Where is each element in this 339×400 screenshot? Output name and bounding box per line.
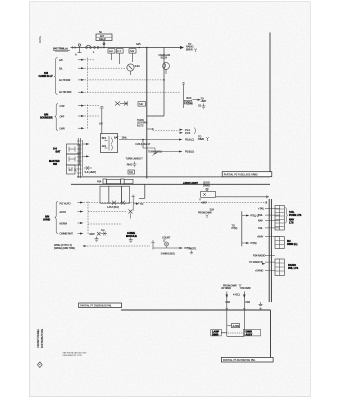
group label SOUNDER	[40, 114, 53, 120]
svg-text:BUS: BUS	[187, 97, 192, 100]
svg-text:PNL LTS: PNL LTS	[288, 267, 299, 270]
svg-text:TURN LANDG T: TURN LANDG T	[126, 158, 144, 161]
net label OFF	[60, 115, 65, 118]
tick P2 pin PLT AUTO	[265, 201, 268, 204]
svg-text:S-5A: S-5A	[135, 65, 141, 68]
svg-text:CTR: CTR	[60, 105, 65, 108]
partial box P2 right boundary wire	[269, 33, 271, 173]
svg-text:J-BOX ASSY: J-BOX ASSY	[183, 182, 198, 185]
net label CTR	[60, 105, 65, 108]
label LAMP DIMR	[211, 329, 222, 336]
connector pin arrow P3(A,C)	[179, 139, 194, 142]
svg-text:DIM: DIM	[246, 301, 250, 304]
svg-text:G25: G25	[136, 43, 141, 46]
svg-text:SW: SW	[53, 163, 58, 166]
svg-text:AC HR FRZ: AC HR FRZ	[59, 91, 72, 94]
wire 13AL landing feed	[114, 136, 179, 139]
connector pin arrow P1 B	[180, 128, 196, 136]
label +BAT below P2 bar	[199, 199, 207, 205]
svg-text:P3 (B,D): P3 (B,D)	[185, 151, 194, 154]
connector boundary dashed J1	[86, 58, 88, 94]
svg-text:MODULE: MODULE	[126, 235, 137, 238]
buzzer S-7 chime	[132, 195, 144, 210]
ground GND5 dimmer	[259, 302, 263, 307]
connector pin arrow AC HR FRZ	[78, 91, 85, 93]
svg-text:C-T: C-T	[117, 50, 121, 53]
svg-text:GND: GND	[185, 101, 191, 104]
wire dashed AC HI FRZ run	[85, 79, 165, 81]
junction dimmer up on boundary	[226, 308, 228, 310]
group label CABIN DOMELIGHT	[39, 72, 54, 78]
relay box landing	[201, 192, 216, 198]
tick dimmer wires 4YC	[226, 294, 246, 296]
fuse F1 on battery bus	[86, 45, 92, 48]
svg-text:+BAT: +BAT	[201, 202, 207, 205]
wire drop from C-TA breaker	[119, 53, 121, 64]
label box PARTIAL P7 OVERHEAD PNL	[79, 303, 122, 308]
net row P2 RADIO	[253, 255, 275, 258]
circuit breaker C-TA box on bus	[116, 49, 123, 54]
wire drop from S-N breaker	[132, 53, 134, 62]
connector P2 double column	[269, 199, 271, 302]
svg-text:RHG: RHG	[127, 163, 132, 166]
terminal ticks on battery bus	[73, 46, 102, 49]
svg-text:P7(N): P7(N)	[251, 242, 257, 245]
label FUS LDG LT	[136, 143, 151, 146]
net label AUTO	[60, 211, 67, 214]
junction dimmer down on boundary	[243, 308, 245, 310]
wire dashed to P1	[153, 130, 180, 132]
svg-text:P7(F): P7(F)	[232, 227, 238, 230]
wire dashed AC HR FRZ run	[85, 91, 181, 93]
note text SEE INSTALLATION DWG	[63, 351, 87, 357]
svg-text:A/C: A/C	[59, 59, 63, 62]
connector pin arrow LWR	[78, 127, 85, 129]
connector pin arrow AC HI FRZ	[78, 79, 85, 81]
box S-D	[138, 102, 146, 107]
svg-text:1-WING (NO): 1-WING (NO)	[161, 253, 175, 256]
svg-text:TAIL: TAIL	[258, 214, 263, 217]
svg-text:+5 RAD: +5 RAD	[255, 270, 264, 273]
svg-text:(WING) (LWR TRM): (WING) (LWR TRM)	[54, 247, 75, 250]
label RADIO PNL LTS	[288, 264, 299, 270]
connector splice box 3 on rails	[121, 179, 125, 184]
label 1-WING NO	[161, 253, 175, 256]
label RH DIMR	[287, 240, 297, 246]
svg-text:AK1: AK1	[102, 145, 107, 148]
wire to P3 landing	[155, 151, 179, 153]
switch bank box 1-PLT mid	[109, 186, 122, 203]
svg-text:AUTO: AUTO	[60, 211, 67, 214]
connector splice box 2 on rails	[107, 179, 121, 183]
net label NORM	[60, 222, 67, 225]
svg-text:DIM: DIM	[226, 301, 230, 304]
net row TAIL L	[258, 214, 280, 217]
net row +NAV	[257, 236, 280, 239]
connector pin arrow OFF	[78, 115, 85, 117]
switch S-6 contact box aux	[67, 165, 76, 174]
wire battery bus	[71, 47, 181, 49]
wire dimmer down inside box	[243, 310, 245, 336]
wire feeder stub below rails	[139, 184, 145, 198]
wire drop from A-C breaker	[111, 53, 113, 60]
connector pin arrow CHIME RMT	[78, 233, 84, 235]
svg-text:DN DIMR: DN DIMR	[241, 287, 251, 290]
net label D/L	[59, 67, 63, 70]
svg-text:+NAV: +NAV	[257, 236, 263, 239]
wire vertical drop x164	[163, 48, 165, 117]
svg-text:NAV: NAV	[258, 219, 263, 222]
label J-BOX ASSY	[183, 182, 198, 185]
net row TAIL R	[258, 227, 280, 230]
svg-text:SOLN: SOLN	[161, 56, 168, 59]
wire dimmer down drop	[243, 292, 245, 311]
svg-text:OFF: OFF	[60, 115, 65, 118]
relay K1 box	[101, 134, 118, 153]
wire dashed A/C run	[85, 59, 96, 61]
remote chime cluster S-1	[90, 229, 108, 236]
drawing number vertical text DWG	[38, 35, 42, 43]
ground GND1	[202, 104, 206, 109]
connector splice box 4 on rails	[124, 179, 133, 183]
arrow to battery bus feed	[193, 99, 202, 101]
net label PLT AUTO	[60, 202, 71, 205]
terminal block RH dimmer	[275, 237, 284, 249]
net label CHIME RMT	[60, 233, 74, 236]
fuse F2 on battery bus	[93, 47, 99, 54]
transistor Q1 S-5A	[127, 64, 140, 75]
label COURT LT	[162, 237, 171, 243]
label NAV LTS	[289, 219, 294, 225]
switch S-6 contact box upper	[67, 144, 80, 154]
junction AC HI FRZ at x164	[163, 79, 165, 81]
connector pin arrow WING	[84, 245, 88, 247]
wire dashed chime return	[88, 223, 121, 225]
wire overhead panel boundary top	[121, 309, 271, 311]
circuit breaker CB1 ALT FIELD box	[96, 31, 112, 41]
ground GND3 chime	[129, 238, 133, 243]
svg-text:FROM DIMR: FROM DIMR	[198, 211, 212, 214]
circuit breaker S-N box on bus	[129, 49, 136, 54]
connector pin arrow D/L	[78, 67, 85, 69]
transistor Q2 bus-load switch	[182, 83, 193, 108]
connector pin arrow AUTO	[78, 211, 84, 213]
switch S-6 BAT label	[53, 148, 61, 154]
junction FUS LDG	[142, 139, 144, 148]
svg-text:5A: 5A	[99, 31, 102, 34]
terminal block tail position lights	[275, 206, 284, 231]
connector pin arrow NORM	[78, 222, 84, 224]
junction ground on boundary	[259, 308, 261, 310]
switch MASTER SW label	[49, 160, 60, 166]
label DN DIMR	[241, 287, 251, 290]
svg-text:LWR: LWR	[60, 128, 65, 131]
connector pin arrow master out2	[82, 155, 90, 157]
label S2A	[210, 209, 215, 212]
label P24 connector	[97, 181, 102, 184]
label TAIL POSN LTS	[289, 211, 302, 217]
wire vertical feeder from bus x147	[146, 48, 148, 179]
label TO +BAT upper right	[198, 104, 202, 107]
svg-text:LTS: LTS	[289, 222, 294, 225]
connector pin arrow P7(K)	[175, 247, 191, 250]
junction LDG wire	[147, 128, 154, 130]
connector pin arrow A/C	[78, 59, 85, 61]
box A-DIM	[227, 324, 240, 328]
ground GND2	[133, 162, 137, 167]
switch S-4 +BAT cluster	[69, 166, 96, 174]
node BAT TRML(+) label	[53, 47, 70, 51]
net label AC HI FRZ	[59, 79, 71, 82]
connector boundary dashed J2	[86, 105, 88, 130]
svg-text:FIELD: FIELD	[99, 38, 106, 41]
wire overhead panel boundary right	[270, 310, 272, 357]
net row TO RADIO B	[249, 261, 275, 265]
connector pin arrow P7(N)	[242, 242, 257, 245]
wire dashed chime feed	[88, 211, 126, 213]
label box PARTIAL P2 FUSELAGE HRNS	[222, 172, 272, 177]
svg-text:RADIO B: RADIO B	[253, 261, 263, 264]
svg-text:PARTIAL P5 RH SWITCH PNL: PARTIAL P5 RH SWITCH PNL	[223, 359, 256, 362]
switch S-8 upper	[99, 107, 104, 134]
wire from CB1 to battery bus	[103, 41, 105, 48]
switch bank box 1-PLT right	[121, 186, 129, 203]
connector splice box 1 on rails	[103, 179, 107, 184]
svg-text:P24: P24	[97, 181, 102, 184]
left group bracket CABIN DOMELIGHT	[54, 58, 57, 95]
net row +5 RADIO	[255, 270, 275, 273]
connector boundary dashed J3	[87, 202, 89, 235]
left group bracket SOUNDER	[55, 104, 58, 131]
svg-text:BAT: BAT	[114, 137, 119, 140]
label TO RADIO BRKR PNL	[186, 43, 197, 52]
wire ground bus upper rail	[77, 176, 270, 178]
wire DIMR ASSY link	[221, 332, 243, 334]
ammeter shunt R1	[75, 44, 82, 57]
label TO +BAT BUS	[201, 98, 207, 104]
lamp courtesy	[160, 242, 175, 248]
label FROM DIMR bottom	[223, 284, 242, 288]
box S-8 lower	[128, 170, 135, 174]
switch bank box 1-PLT left	[100, 186, 109, 203]
svg-text:DIMR (L): DIMR (L)	[287, 243, 297, 246]
label TO S2 DIMR mid	[198, 136, 209, 142]
svg-text:4 Y(C): 4 Y(C)	[233, 294, 240, 297]
svg-text:BK1: BK1	[102, 137, 107, 140]
net label A/C	[59, 59, 63, 62]
box GND terminal	[184, 100, 192, 104]
net row NAV	[258, 219, 280, 222]
left group bracket OVERHEAD	[55, 202, 58, 234]
svg-text:AC HI FRZ: AC HI FRZ	[59, 79, 71, 82]
net row +TAIL	[258, 208, 280, 211]
tick P2 pin landing	[266, 195, 269, 198]
svg-text:NOTE: NOTE	[190, 248, 197, 251]
node G25	[136, 43, 141, 48]
svg-text:PARTIAL P2 FUSELAGE HRNS: PARTIAL P2 FUSELAGE HRNS	[224, 174, 258, 177]
svg-text:BAT: BAT	[56, 151, 61, 154]
svg-text:PARTIAL P7 OVERHEAD PNL: PARTIAL P7 OVERHEAD PNL	[80, 305, 112, 308]
svg-text:+TAIL: +TAIL	[258, 208, 265, 211]
junction bus x147	[146, 47, 148, 49]
connector pin arrow P3(B,D)	[179, 151, 194, 154]
resistor RHG	[127, 163, 132, 166]
switch S-4B	[143, 148, 162, 156]
wire dimmer up inside box	[226, 310, 228, 336]
label DIM right	[246, 301, 250, 304]
svg-text:DIMR: DIMR	[198, 138, 204, 141]
svg-text:DWG.: DWG.	[38, 35, 42, 43]
svg-text:SEE INSTALLATION DWG: SEE INSTALLATION DWG	[63, 351, 87, 354]
svg-text:NORM: NORM	[60, 222, 67, 225]
svg-text:1-PLT (NO): 1-PLT (NO)	[107, 206, 119, 209]
svg-text:A-DIM: A-DIM	[233, 325, 240, 328]
label TO P7 Q	[232, 225, 238, 231]
svg-text:S-D: S-D	[139, 103, 143, 106]
switch cluster S-D left	[115, 102, 128, 106]
ground GND4 remote	[95, 237, 99, 242]
svg-text:P1 B: P1 B	[185, 132, 190, 135]
connector column P24 pins	[77, 138, 83, 178]
connector pin arrow P1 A	[180, 129, 191, 132]
connector pin arrow CTR	[78, 105, 85, 107]
connector pin arrow master out1	[82, 143, 90, 145]
svg-text:13AL: 13AL	[122, 136, 128, 139]
terminal block radio panel lights	[275, 259, 284, 276]
svg-text:CHIME RMT: CHIME RMT	[60, 233, 74, 236]
lamp group brace tail	[285, 208, 288, 224]
landing taxi feed label LDGG TAXI	[203, 182, 210, 188]
wire dimmer up drop	[226, 292, 228, 311]
net label LWR	[60, 128, 65, 131]
arrow to radio breaker panel	[180, 46, 184, 49]
label WING CTSY LT	[54, 244, 75, 250]
svg-text:SOUNDER: SOUNDER	[40, 116, 53, 119]
label LDG TAXI LTS	[137, 119, 148, 127]
distribution stub bracket TO P7	[241, 211, 243, 246]
group label OVHD SW	[43, 215, 50, 221]
junction battery bus / CB1	[103, 47, 105, 49]
switch chime X1	[129, 210, 133, 219]
terminal lug on CB1 wire	[103, 43, 105, 45]
svg-text:P3 (A,C): P3 (A,C)	[185, 139, 194, 142]
label DIMR ASSY	[244, 329, 261, 336]
label DIM left	[226, 301, 230, 304]
note flag NOTE with ground	[190, 248, 197, 254]
svg-text:TO: TO	[249, 261, 252, 264]
net label AC HR FRZ	[59, 91, 72, 94]
wire dashed D/L run	[85, 67, 128, 69]
chime module label	[126, 232, 137, 238]
revision diamond symbol	[37, 362, 42, 368]
svg-text:BAT TRML(+): BAT TRML(+)	[53, 47, 68, 50]
circuit breaker A-C box on bus	[108, 49, 115, 54]
svg-text:A-C: A-C	[109, 50, 113, 53]
wire landing feed to P2	[216, 196, 270, 198]
connector pin arrow PLT AUTO	[78, 202, 84, 204]
wire LAMP DIMR link	[221, 332, 227, 334]
label box PARTIAL P5 RH SWITCH PNL	[221, 357, 273, 362]
svg-text:RMT: RMT	[90, 233, 96, 236]
svg-text:UP DIMR: UP DIMR	[221, 287, 231, 290]
switch courtesy T1	[151, 241, 160, 250]
svg-text:S-N: S-N	[130, 50, 134, 53]
svg-text:DISTRIBUTION: DISTRIBUTION	[40, 329, 44, 348]
svg-text:FRONT PANEL: FRONT PANEL	[36, 328, 40, 347]
wire ground bus lower rail	[71, 183, 270, 185]
label TURN LANDG T	[126, 158, 144, 161]
svg-text:TO: TO	[140, 203, 143, 206]
switch S-6 contact box lower	[67, 154, 80, 165]
svg-text:BRKR: BRKR	[186, 48, 193, 51]
svg-text:CABIN D-LT: CABIN D-LT	[39, 75, 54, 78]
wire dashed WING run	[87, 245, 150, 247]
switch contacts 1-PLT NO	[107, 201, 125, 209]
label 4 Y C between drops	[233, 294, 240, 297]
solenoid L1 CIG/B AUX SOLN	[159, 54, 171, 74]
diode CR1	[206, 188, 209, 191]
title vertical text FRONT PANEL DISTRIBUTION	[36, 328, 44, 348]
wire dashed OFF run	[85, 115, 100, 117]
svg-text:P24 RADIO: P24 RADIO	[253, 255, 265, 258]
connector pin arrow P7(L)	[242, 215, 259, 218]
svg-text:PLT AUTO: PLT AUTO	[60, 202, 71, 205]
svg-text:DESIGNATION TYPE: DESIGNATION TYPE	[63, 354, 83, 357]
wire jog y116	[147, 115, 164, 117]
wire dashed CTR run	[85, 105, 100, 107]
svg-text:OVHD: OVHD	[43, 218, 50, 221]
label UP DIMR	[221, 287, 231, 290]
svg-text:S-4 (+BAT): S-4 (+BAT)	[85, 171, 97, 174]
wire dimmer bottom link	[227, 335, 245, 337]
label FROM DIMR left	[198, 211, 212, 218]
svg-text:B LTS: B LTS	[137, 124, 144, 127]
svg-text:+BAT: +BAT	[201, 100, 207, 103]
svg-text:TAIL: TAIL	[258, 227, 263, 230]
svg-text:POSN LTS: POSN LTS	[289, 214, 302, 217]
svg-text:(TAXI): (TAXI)	[203, 185, 210, 188]
wire dashed PLT AUTO run to P2 connector	[84, 202, 267, 204]
